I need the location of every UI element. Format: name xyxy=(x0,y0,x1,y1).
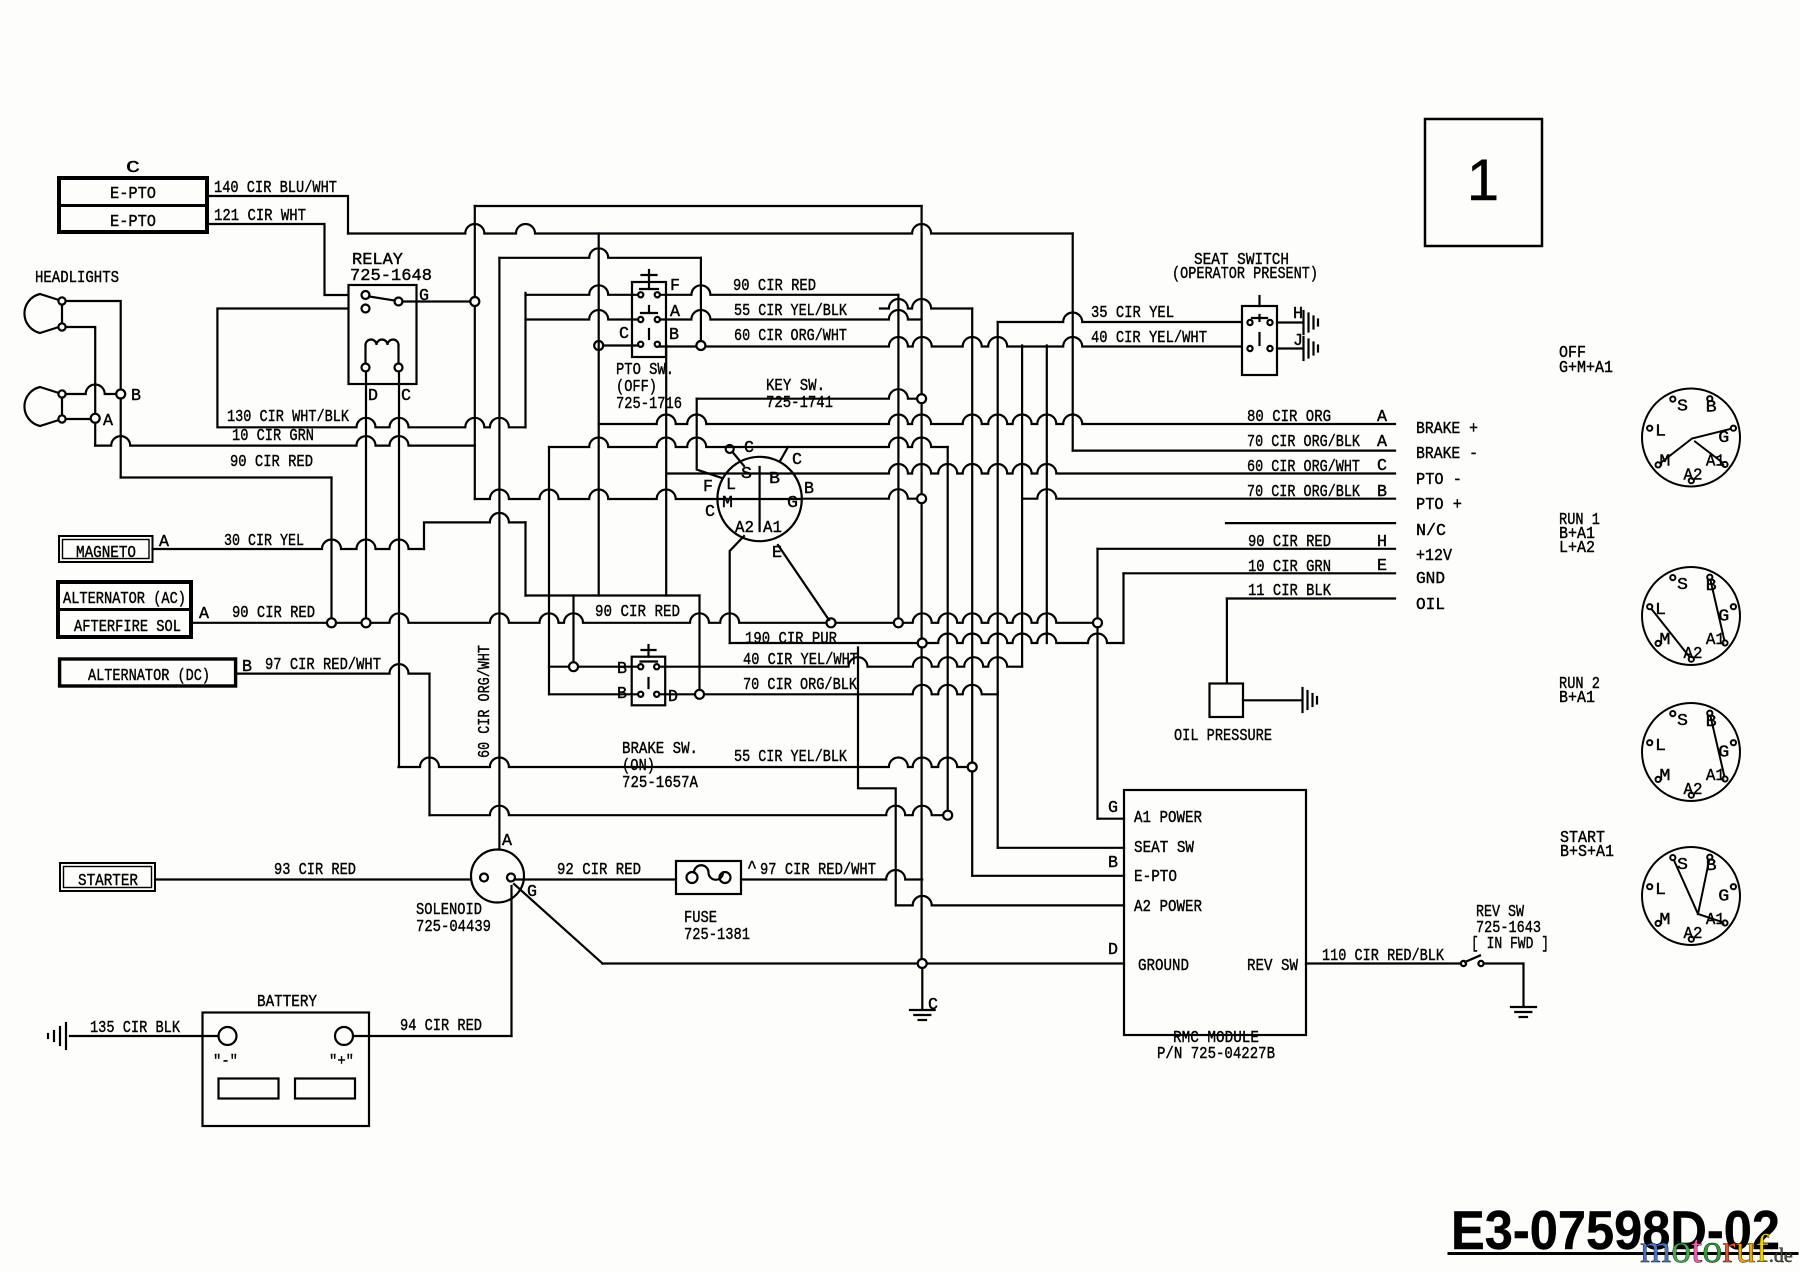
svg-text:B: B xyxy=(1706,713,1717,732)
svg-text:725-1648: 725-1648 xyxy=(350,267,432,286)
oil pressure ground symbol xyxy=(1301,688,1303,712)
wire 93 CIR RED xyxy=(155,878,480,880)
svg-text:L: L xyxy=(1655,423,1666,442)
solenoid circle xyxy=(471,850,524,903)
wire oil pressure to ground xyxy=(1243,699,1301,701)
svg-text:G: G xyxy=(419,287,429,306)
wire x1097 riser xyxy=(1096,549,1098,619)
svg-text:B+S+A1: B+S+A1 xyxy=(1560,843,1614,862)
svg-text:J: J xyxy=(1293,332,1303,351)
relay coil pin C xyxy=(395,364,403,372)
wire 94 CIR RED xyxy=(353,1035,512,1037)
svg-text:92 CIR RED: 92 CIR RED xyxy=(557,861,641,880)
wire 60 CIR ORG/WHT drop x1046 to 190 row xyxy=(1046,346,1048,644)
pto switch antenna mark xyxy=(648,270,650,282)
relay box xyxy=(349,285,417,384)
wire 30 CIR YEL drop x525 xyxy=(524,522,526,595)
E-PTO connector block (2 cells) xyxy=(59,178,207,232)
wire 130 to 140 riser x525 xyxy=(524,293,526,428)
headlight lamp 2 xyxy=(24,387,62,426)
seat switch antenna xyxy=(1258,296,1260,306)
node 60 CIR ORG/WHT at x700 xyxy=(696,341,705,350)
wire lamp1 bottom to node A column xyxy=(66,327,96,414)
svg-text:A: A xyxy=(103,412,114,431)
wire feed x700 from y257 run xyxy=(700,258,702,341)
svg-text:190 CIR PUR: 190 CIR PUR xyxy=(745,630,837,649)
drawing number underline xyxy=(1449,1252,1797,1255)
pto contact F xyxy=(640,288,658,290)
wire key C top-right diagonal xyxy=(780,447,788,461)
svg-text:"+": "+" xyxy=(329,1053,354,1070)
svg-text:G: G xyxy=(1718,429,1729,448)
svg-text:PTO +: PTO + xyxy=(1416,496,1462,515)
wire 130 CIR WHT/BLK loop xyxy=(217,309,525,428)
relay blade xyxy=(369,297,395,301)
svg-text:[ IN FWD ]: [ IN FWD ] xyxy=(1471,935,1549,954)
node brake B at x573 xyxy=(569,662,578,671)
wire 10 CIR GRN lower run xyxy=(95,436,475,445)
wire 97 CIR RED/WHT from alternator DC xyxy=(236,664,430,674)
svg-text:40 CIR YEL/WHT: 40 CIR YEL/WHT xyxy=(1091,329,1207,348)
wire 190 riser to 10 CIR GRN E row xyxy=(1122,573,1124,643)
STARTER box xyxy=(60,863,155,891)
ground symbol C below RMC ground row xyxy=(921,968,923,1008)
svg-text:B: B xyxy=(804,480,814,499)
wire row to key C from x549 xyxy=(549,438,948,448)
wire 97 CIR RED/WHT lower run xyxy=(430,806,944,815)
svg-text:60 CIR ORG/WHT: 60 CIR ORG/WHT xyxy=(734,327,847,346)
wire relay coil D down to 90 CIR RED node xyxy=(365,372,367,619)
svg-text:94 CIR RED: 94 CIR RED xyxy=(400,1017,482,1036)
svg-text:97 CIR RED/WHT: 97 CIR RED/WHT xyxy=(265,656,381,675)
wire 60 CIR ORG/WHT C row xyxy=(666,464,1395,474)
svg-text:725-1716: 725-1716 xyxy=(616,395,682,414)
node 90 CIR RED at x1097 xyxy=(1093,618,1102,627)
wire 60 CIR ORG/WHT vertical to solenoid xyxy=(498,258,500,850)
wire x1022 riser from 60 ORG/WHT row xyxy=(1021,346,1023,667)
svg-text:725-04439: 725-04439 xyxy=(416,918,491,937)
wire x549 riser xyxy=(548,447,550,694)
ALTERNATOR (AC) / AFTERFIRE SOL block xyxy=(58,582,191,637)
svg-text:1: 1 xyxy=(1467,148,1499,213)
wire 70 CIR ORG/BLK corner down to brake row xyxy=(1072,234,1074,451)
svg-text:G: G xyxy=(1718,744,1729,763)
node 10 CIR GRN x921 xyxy=(917,394,926,403)
wire 97 CIR RED/WHT from fuse xyxy=(741,870,922,880)
svg-text:G: G xyxy=(1718,888,1729,907)
wire x921 riser lower xyxy=(920,403,922,959)
svg-text:ALTERNATOR (AC): ALTERNATOR (AC) xyxy=(63,590,186,609)
svg-text:93 CIR RED: 93 CIR RED xyxy=(274,861,356,880)
node 90 CIR RED at x366 xyxy=(362,618,371,627)
svg-text:725-1741: 725-1741 xyxy=(766,394,833,413)
svg-text:L: L xyxy=(726,476,736,495)
wire E-PTO feed xyxy=(972,875,1124,877)
pto pins row A xyxy=(638,317,643,322)
wire row 308 to x947 xyxy=(880,299,972,308)
ignition circle RUN 2 xyxy=(1642,703,1740,801)
svg-text:STARTER: STARTER xyxy=(78,872,138,891)
wire solenoid G diagonal to ground row xyxy=(514,884,603,964)
svg-text:E-PTO: E-PTO xyxy=(110,213,156,232)
wire 140 drop x598 from top xyxy=(598,234,600,596)
wire key A2 diagonal and drop xyxy=(730,536,744,643)
svg-text:725-1381: 725-1381 xyxy=(684,926,750,945)
wire 97 CIR RED/WHT drop x429 xyxy=(428,674,430,816)
battery terminal plus xyxy=(335,1027,353,1045)
wire lamp1 top to node B column xyxy=(66,301,121,390)
svg-text:BRAKE +: BRAKE + xyxy=(1416,420,1478,439)
svg-text:A2: A2 xyxy=(1684,645,1703,664)
svg-text:A2: A2 xyxy=(1684,781,1703,800)
wire A column down to 10 CIR GRN xyxy=(94,423,96,446)
svg-text:M: M xyxy=(722,494,733,513)
svg-text:G: G xyxy=(1718,608,1729,627)
node brake D at x699 xyxy=(695,690,704,699)
wire 60 CIR ORG/WHT pto B row xyxy=(603,344,638,346)
svg-text:C: C xyxy=(928,996,938,1015)
wire 70 CIR ORG/BLK brake D row xyxy=(549,693,638,695)
brake contact top xyxy=(641,660,658,662)
svg-text:B: B xyxy=(669,326,679,345)
node 90 CIR RED at x898 xyxy=(894,618,903,627)
svg-text:C: C xyxy=(619,325,629,344)
relay pin 3 xyxy=(362,305,370,313)
wire 90 CIR RED down column x331 xyxy=(330,478,332,619)
svg-text:MAGNETO: MAGNETO xyxy=(76,544,136,563)
key switch circle xyxy=(717,457,801,541)
ignition circle OFF xyxy=(1642,389,1740,487)
svg-text:+12V: +12V xyxy=(1416,547,1453,566)
wire 35 CIR YEL to seat switch xyxy=(998,313,1247,323)
svg-text:60 CIR ORG/WHT: 60 CIR ORG/WHT xyxy=(475,645,494,758)
svg-text:C: C xyxy=(401,387,411,406)
svg-text:L: L xyxy=(1655,881,1666,900)
wire 90 CIR RED long run to RMC area xyxy=(191,613,1098,623)
pto contact A xyxy=(641,312,657,314)
svg-text:B: B xyxy=(1706,399,1717,418)
wire 10 CIR GRN top run xyxy=(475,205,922,207)
relay coil xyxy=(364,345,366,364)
wire A1 POWER feed xyxy=(1098,818,1125,820)
svg-text:E-PTO: E-PTO xyxy=(1134,868,1177,887)
wire B column down to 90 CIR RED xyxy=(120,399,122,478)
svg-text:C: C xyxy=(126,159,140,178)
svg-text:S: S xyxy=(1677,576,1688,595)
node B xyxy=(116,390,125,399)
svg-text:10 CIR GRN: 10 CIR GRN xyxy=(232,427,314,446)
svg-text:A1: A1 xyxy=(1706,911,1725,930)
seat J wire and ground xyxy=(1277,347,1302,349)
oil pressure box xyxy=(1210,684,1244,718)
svg-text:55 CIR YEL/BLK: 55 CIR YEL/BLK xyxy=(734,302,848,321)
wire 80 CIR ORG row xyxy=(599,415,1395,425)
svg-text:725-1657A: 725-1657A xyxy=(622,774,699,793)
svg-text:B: B xyxy=(1706,857,1717,876)
svg-text:130 CIR WHT/BLK: 130 CIR WHT/BLK xyxy=(227,408,350,427)
wire 90 CIR RED H row xyxy=(1098,548,1396,550)
svg-text:AFTERFIRE SOL: AFTERFIRE SOL xyxy=(74,618,181,637)
wire SEAT SW feed xyxy=(998,847,1124,849)
svg-text:97 CIR RED/WHT: 97 CIR RED/WHT xyxy=(760,861,876,880)
brake contact bottom dash xyxy=(647,678,649,688)
fuse box xyxy=(676,861,741,894)
wire 70 CIR ORG/BLK B row xyxy=(802,489,917,499)
brake antenna mark xyxy=(647,645,649,657)
ignition circle START xyxy=(1642,847,1740,945)
wire key C node and diagonal xyxy=(726,445,734,453)
svg-text:C: C xyxy=(705,503,715,522)
pto pins row B xyxy=(638,342,643,347)
wire 90 CIR RED headlight run xyxy=(121,476,332,478)
MAGNETO box xyxy=(59,536,153,562)
wire solenoid bottom to battery + xyxy=(510,886,512,1036)
svg-text:N/C: N/C xyxy=(1416,522,1446,541)
svg-text:A1: A1 xyxy=(1706,631,1725,650)
oil pressure riser x1226 xyxy=(1226,599,1228,684)
wire 190 CIR PUR row xyxy=(730,634,1124,644)
node 55 CIR YEL/BLK at x972 xyxy=(968,763,977,772)
svg-text:F: F xyxy=(670,277,680,296)
relay pin 2 (common G) xyxy=(395,298,403,306)
svg-text:A1: A1 xyxy=(763,519,782,538)
svg-text:M: M xyxy=(1659,631,1670,650)
svg-text:A1 POWER: A1 POWER xyxy=(1134,809,1202,828)
wire seat feed riser x997 top corner xyxy=(997,322,999,692)
svg-text:A2: A2 xyxy=(1684,925,1703,944)
svg-text:C: C xyxy=(792,451,802,470)
svg-text:M: M xyxy=(1659,453,1670,472)
svg-text:OIL PRESSURE: OIL PRESSURE xyxy=(1174,727,1272,746)
wire 135 CIR BLK and ground xyxy=(70,1035,219,1037)
fuse element xyxy=(687,872,698,883)
wire 30 CIR YEL xyxy=(153,540,425,550)
svg-text:HEADLIGHTS: HEADLIGHTS xyxy=(35,269,119,288)
node 90 CIR RED at key E diagonal xyxy=(827,618,836,627)
svg-text:55 CIR YEL/BLK: 55 CIR YEL/BLK xyxy=(734,748,848,767)
wire A2 POWER feed via x858 x895 xyxy=(858,648,1124,906)
pto contact B dash xyxy=(648,329,650,339)
svg-text:M: M xyxy=(1659,911,1670,930)
wire rev switch to ground xyxy=(1484,964,1524,1006)
seat contact dash xyxy=(1258,333,1260,345)
wire N/C row xyxy=(1226,522,1395,524)
motoruf.de watermark xyxy=(1640,1226,1793,1271)
battery cell rect 1 xyxy=(219,1079,279,1099)
svg-text:35 CIR YEL: 35 CIR YEL xyxy=(1091,304,1174,323)
wire x947 riser xyxy=(947,447,949,811)
wire x972 riser xyxy=(971,309,973,763)
seat switch box xyxy=(1242,306,1277,375)
seat contact top xyxy=(1258,315,1260,321)
wire 11 CIR BLK row xyxy=(1227,597,1395,599)
svg-text:G: G xyxy=(787,494,798,513)
svg-text:L: L xyxy=(1655,737,1666,756)
svg-text:SEAT SW: SEAT SW xyxy=(1134,839,1195,858)
svg-text:A1: A1 xyxy=(1706,767,1725,786)
svg-text:OIL: OIL xyxy=(1416,596,1445,615)
svg-text:A1: A1 xyxy=(1706,453,1725,472)
wire relay G to 10 CIR GRN node xyxy=(403,300,471,302)
wire 55 CIR YEL/BLK pto A row xyxy=(526,310,639,320)
wire 90 CIR RED pto row xyxy=(526,285,639,295)
node 60 CIR ORG/WHT at x598 xyxy=(594,341,603,350)
svg-text:PTO -: PTO - xyxy=(1416,471,1462,490)
svg-text:S: S xyxy=(1677,712,1688,731)
headlight lamp 1 xyxy=(24,294,62,333)
wire 121 CIR WHT from E-PTO to relay xyxy=(207,224,361,295)
svg-text:(OPERATOR PRESENT): (OPERATOR PRESENT) xyxy=(1172,265,1318,284)
svg-text:S: S xyxy=(1677,398,1688,417)
wire 55 CIR YEL/BLK lower run xyxy=(399,758,973,768)
rev switch ground symbol xyxy=(1511,1006,1536,1008)
RMC module box xyxy=(1124,790,1306,1035)
svg-text:90 CIR RED: 90 CIR RED xyxy=(232,604,315,623)
svg-text:C: C xyxy=(744,439,754,458)
wire 140 CIR BLU/WHT from E-PTO xyxy=(207,196,348,234)
brake switch box xyxy=(632,657,666,706)
svg-text:90 CIR RED: 90 CIR RED xyxy=(733,277,816,296)
node A xyxy=(91,414,100,423)
svg-text:F: F xyxy=(703,478,713,497)
key switch M-G line and M row wire xyxy=(475,490,802,499)
node 190 CIR PUR at x922 xyxy=(918,639,927,648)
battery box xyxy=(203,1013,370,1127)
wire lamp2 top to node B xyxy=(66,385,117,394)
svg-text:A: A xyxy=(199,605,210,624)
ALTERNATOR (DC) box xyxy=(60,659,236,686)
solenoid pin left xyxy=(480,874,488,882)
wire y257 run from x499 xyxy=(499,248,701,258)
svg-text:D: D xyxy=(1108,941,1118,960)
node 90 CIR RED at x331 xyxy=(327,618,336,627)
wire seat sw feed down x997 to RMC SEAT SW xyxy=(997,692,999,848)
svg-text:BATTERY: BATTERY xyxy=(257,993,317,1012)
rev switch contacts xyxy=(1461,961,1466,966)
svg-text:D: D xyxy=(368,387,378,406)
wire GROUND row xyxy=(603,962,1125,964)
svg-text:70 CIR ORG/BLK: 70 CIR ORG/BLK xyxy=(1247,433,1361,452)
svg-text:B: B xyxy=(617,660,627,679)
svg-text:H: H xyxy=(1293,305,1303,324)
wire 40 CIR YEL/WHT row (brake B) xyxy=(549,666,638,668)
node G on 10 CIR GRN riser xyxy=(470,297,479,306)
svg-text:GROUND: GROUND xyxy=(1138,957,1189,976)
wire M row riser x474 extension xyxy=(474,446,476,499)
svg-text:P/N 725-04227B: P/N 725-04227B xyxy=(1157,1045,1275,1064)
wire x921 riser upper xyxy=(920,206,922,394)
svg-text:L: L xyxy=(1655,601,1666,620)
svg-text:"-": "-" xyxy=(213,1053,238,1070)
svg-text:B: B xyxy=(131,387,141,406)
node GROUND at x922 xyxy=(918,959,927,968)
relay coil pin D xyxy=(362,364,370,372)
wire x699 drop xyxy=(698,596,700,691)
wire y595 run xyxy=(526,594,700,596)
wire relay coil C down to 55 CIR YEL/BLK xyxy=(398,372,400,768)
svg-text:E-PTO: E-PTO xyxy=(110,185,156,204)
svg-text:70 CIR ORG/BLK: 70 CIR ORG/BLK xyxy=(743,676,858,695)
seat H wire and ground xyxy=(1277,321,1302,323)
svg-text:B+A1: B+A1 xyxy=(1559,689,1595,708)
pto switch box xyxy=(632,282,666,357)
wire 70 CIR ORG/BLK top run xyxy=(348,224,1073,234)
svg-text:A: A xyxy=(1377,433,1388,452)
svg-text:A2 POWER: A2 POWER xyxy=(1134,898,1202,917)
wire x573 drop from y595 run xyxy=(572,596,574,663)
pto pins row F xyxy=(638,292,643,297)
key switch crosshair xyxy=(758,467,760,531)
svg-text:90 CIR RED: 90 CIR RED xyxy=(595,603,680,622)
wire 92 CIR RED solenoid to fuse xyxy=(515,878,676,880)
solenoid pin right xyxy=(507,874,515,882)
svg-text:S: S xyxy=(1677,856,1688,875)
seat pins J row xyxy=(1247,346,1252,351)
svg-text:A2: A2 xyxy=(1684,467,1703,486)
svg-text:GND: GND xyxy=(1416,570,1445,589)
svg-text:A: A xyxy=(502,832,513,851)
wire 10 CIR GRN riser xyxy=(474,206,476,446)
wire 90 CIR RED drop x898 xyxy=(897,295,899,619)
svg-text:G+M+A1: G+M+A1 xyxy=(1559,359,1613,378)
svg-text:L+A2: L+A2 xyxy=(1559,539,1595,558)
wire x666 drop from pto B row xyxy=(665,346,667,596)
svg-text:G: G xyxy=(1108,799,1118,818)
wire 10 CIR GRN E row xyxy=(1124,572,1396,574)
wire key F diagonal from x696 xyxy=(697,399,722,478)
wire 70 CIR ORG/BLK A row xyxy=(1073,450,1395,452)
node 97 CIR RED/WHT at x947 xyxy=(943,811,952,820)
svg-text:^: ^ xyxy=(747,859,757,878)
svg-text:B: B xyxy=(1108,854,1118,873)
wire 30 CIR YEL step up xyxy=(424,513,526,549)
svg-text:D: D xyxy=(668,688,678,707)
svg-text:REV SW: REV SW xyxy=(1247,957,1299,976)
svg-text:90 CIR RED: 90 CIR RED xyxy=(230,453,313,472)
svg-text:BRAKE -: BRAKE - xyxy=(1416,445,1478,464)
battery cell rect 2 xyxy=(295,1079,355,1099)
svg-text:ALTERNATOR (DC): ALTERNATOR (DC) xyxy=(88,667,210,686)
svg-text:B: B xyxy=(1706,577,1717,596)
wire key E diagonal to 90 CIR RED node xyxy=(778,545,829,620)
relay pin 1 xyxy=(362,291,370,299)
wire 90 CIR RED key row (L to 10 GRN) xyxy=(697,389,917,399)
brake pins bottom row xyxy=(638,692,643,697)
ignition circle RUN 1 xyxy=(1642,567,1740,665)
svg-text:M: M xyxy=(1659,767,1670,786)
wire lamp2 bottom to node A xyxy=(66,418,91,420)
sheet number box 1 xyxy=(1425,119,1542,246)
battery terminal minus xyxy=(219,1027,237,1045)
brake pins top row xyxy=(638,664,643,669)
seat pins H row xyxy=(1247,320,1252,325)
